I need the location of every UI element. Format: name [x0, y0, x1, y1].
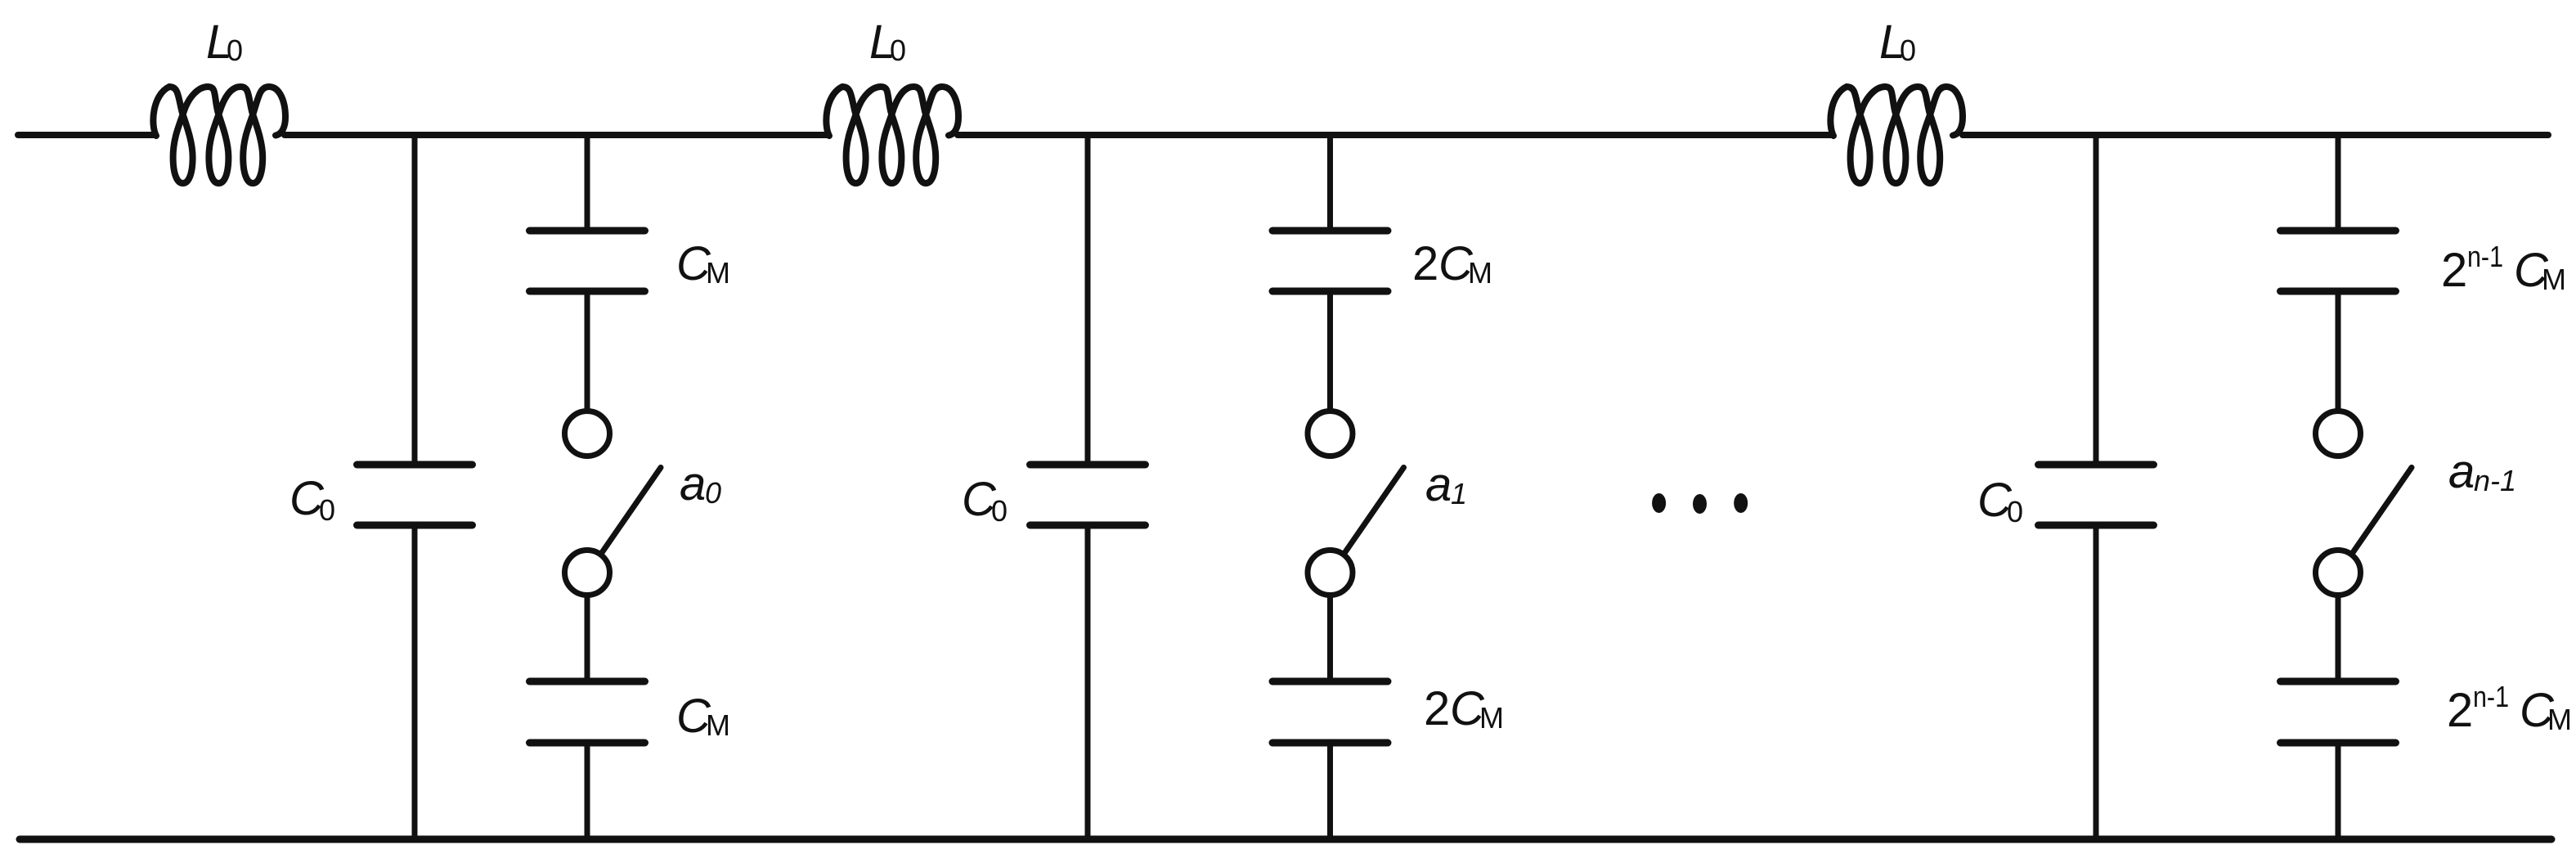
wire: C0 to ground rail (stage 3) — [2094, 528, 2099, 839]
wire: lower cap to ground rail (stage 2) — [1327, 746, 1333, 839]
top rail net: signal line — [18, 132, 2548, 138]
label L0 (stage 2) — [869, 16, 906, 69]
svg-text:n-1: n-1 — [2474, 464, 2516, 497]
label lower cap (stage 3) — [2447, 680, 2572, 737]
svg-text:a: a — [2448, 445, 2475, 498]
wire: lower cap to ground rail (stage 1) — [585, 746, 590, 839]
svg-text:0: 0 — [1900, 34, 1916, 67]
label C0 (stage 2) — [962, 473, 1008, 528]
capacitor C0 (stage 2) — [1030, 465, 1146, 525]
label L0 (stage 3) — [1879, 16, 1916, 69]
label L0 (stage 1) — [206, 16, 243, 69]
ellipsis dots: repeated stages — [1652, 493, 1748, 514]
svg-text:M: M — [2542, 263, 2566, 296]
label switch control a (stage 1) — [680, 457, 721, 510]
svg-text:1: 1 — [1451, 477, 1467, 510]
switch blade a1 — [1344, 468, 1404, 555]
switch contact circle (top) a0 — [565, 411, 610, 456]
capacitor lower CM (stage 1) — [530, 681, 645, 743]
label C0 (stage 1) — [289, 472, 335, 527]
wire: lower cap to ground rail (stage 3) — [2336, 746, 2341, 839]
svg-text:0: 0 — [2007, 495, 2023, 528]
svg-text:0: 0 — [319, 493, 335, 527]
svg-text:0: 0 — [705, 476, 721, 510]
switch blade a0 — [601, 468, 661, 555]
wire: top rail to C0 (stage 1) — [412, 135, 418, 461]
label switch control a (stage 3) — [2448, 445, 2516, 498]
label upper cap (stage 3) — [2441, 240, 2566, 297]
bottom rail net: ground return line — [20, 836, 2551, 843]
svg-text:a: a — [680, 457, 706, 510]
capacitor lower 2n1CM (stage 3) — [2281, 681, 2396, 743]
inductor L0 (stage 3) — [1830, 87, 1963, 183]
svg-text:2: 2 — [1424, 682, 1450, 735]
wire: switch to lower cap (stage 1) — [585, 596, 590, 678]
wire: upper cap to switch (stage 2) — [1327, 294, 1333, 408]
label lower cap (stage 1) — [676, 690, 730, 743]
switch contact circle (top) a2 — [2316, 411, 2361, 456]
svg-text:M: M — [706, 256, 730, 290]
wire: upper cap to switch (stage 3) — [2336, 294, 2341, 408]
label upper cap (stage 2) — [1412, 237, 1492, 290]
wire: C0 to ground rail (stage 1) — [412, 528, 418, 839]
svg-text:a: a — [1425, 458, 1452, 511]
wire: top rail to C0 (stage 2) — [1085, 135, 1091, 461]
wire: top rail to upper cap (stage 3) — [2336, 135, 2341, 227]
svg-text:2: 2 — [2447, 684, 2473, 737]
capacitor upper CM (stage 1) — [530, 231, 645, 291]
switch contact circle (bottom) a0 — [565, 551, 610, 596]
capacitor upper 2CM (stage 2) — [1272, 231, 1388, 291]
svg-text:0: 0 — [991, 494, 1008, 528]
capacitor upper 2n1CM (stage 3) — [2281, 231, 2396, 291]
inductor L0 (stage 1) — [153, 87, 285, 183]
svg-text:n-1: n-1 — [2467, 240, 2503, 273]
svg-text:n-1: n-1 — [2473, 680, 2509, 713]
wire: switch to lower cap (stage 2) — [1327, 596, 1333, 678]
svg-text:0: 0 — [227, 34, 243, 67]
wire: top rail to C0 (stage 3) — [2094, 135, 2099, 461]
svg-text:2: 2 — [1412, 237, 1438, 290]
inductor L0 (stage 2) — [826, 87, 958, 183]
switch contact circle (top) a1 — [1308, 411, 1353, 456]
svg-text:2: 2 — [2441, 244, 2467, 297]
label switch control a (stage 2) — [1425, 458, 1467, 511]
wire: upper cap to switch (stage 1) — [585, 294, 590, 408]
capacitor lower 2CM (stage 2) — [1272, 681, 1388, 743]
switch contact circle (bottom) a2 — [2316, 551, 2361, 596]
svg-text:0: 0 — [890, 34, 906, 67]
svg-text:M: M — [1479, 701, 1504, 735]
wire: switch to lower cap (stage 3) — [2336, 596, 2341, 678]
label upper cap (stage 1) — [676, 237, 730, 290]
svg-text:M: M — [1468, 256, 1492, 290]
capacitor C0 (stage 1) — [357, 465, 473, 525]
wire: top rail to upper cap (stage 2) — [1327, 135, 1333, 227]
wire: C0 to ground rail (stage 2) — [1085, 528, 1091, 839]
capacitor C0 (stage 3) — [2039, 465, 2154, 525]
wire: top rail to upper cap (stage 1) — [585, 135, 590, 227]
switch blade a2 — [2352, 468, 2412, 555]
switch contact circle (bottom) a1 — [1308, 551, 1353, 596]
svg-text:M: M — [2547, 703, 2572, 736]
label lower cap (stage 2) — [1424, 682, 1504, 735]
label C0 (stage 3) — [1977, 474, 2023, 528]
svg-text:M: M — [706, 708, 730, 742]
